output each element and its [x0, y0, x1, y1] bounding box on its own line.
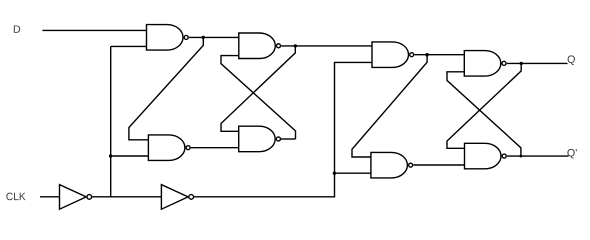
wire master latch feedback B: G4 output to G3 lower input: [221, 56, 296, 139]
wire slave latch feedback D: Q' to G7 lower input: [447, 72, 521, 156]
nand gate G8: [465, 143, 507, 169]
wire G1 output to G3: [189, 36, 239, 38]
node Q' label: [567, 149, 576, 158]
node Q label: [568, 55, 575, 64]
nand gate G3: [239, 33, 281, 59]
wire G5 output feedback to G6 upper input: [352, 55, 427, 157]
wire G5 output to G7 upper input: [414, 54, 464, 56]
wire CLK input: [40, 196, 60, 198]
node D label: [14, 25, 20, 32]
wire G2 lower input: [111, 155, 149, 157]
wire CLK1 riser vertical: [110, 46, 112, 196]
wire D input: [42, 29, 146, 31]
inverter U2 on CLK: [161, 185, 193, 210]
wire Q output line: [507, 62, 568, 64]
wire G3 output to G5 upper input: [281, 45, 372, 47]
nand gate G7: [464, 51, 506, 77]
node junction dot G5 output: [425, 53, 428, 56]
wire G1 output feedback to G2 upper input: [129, 37, 203, 139]
node junction dot Q': [520, 155, 523, 158]
wire Q' output line: [507, 155, 569, 157]
wire slave latch feedback C: Q to G8 upper input: [447, 63, 521, 148]
inverter U1 on CLK: [60, 185, 92, 210]
nand gate G2: [148, 135, 190, 161]
node junction dot G2 lower input: [109, 154, 112, 157]
nand gate G5: [372, 42, 414, 68]
node junction dot G3 output: [294, 44, 297, 47]
wire G6 output to G8 lower input: [413, 164, 464, 166]
wire G1 lower input from CLK1 riser: [111, 45, 147, 47]
wire G4 output stub: [281, 138, 296, 140]
node CLK label: [6, 193, 25, 201]
nand gate G1: [147, 25, 189, 50]
wire inverter2 output CLK2 riser to G5 lower input: [194, 62, 372, 196]
wire G2 output to G4 lower input: [191, 147, 239, 149]
wire master latch feedback A: G3 output to G4 upper input: [221, 46, 295, 131]
wire inverter1 output to inverter2: [92, 196, 161, 198]
node junction dot G1 output: [202, 36, 205, 39]
nand gate G4: [239, 126, 281, 152]
wire G6 lower input from CLK2 riser: [335, 172, 371, 174]
nand gate G6: [371, 152, 413, 178]
node junction dot Q: [520, 62, 523, 65]
node junction dot CLK2 to G6: [333, 172, 336, 175]
